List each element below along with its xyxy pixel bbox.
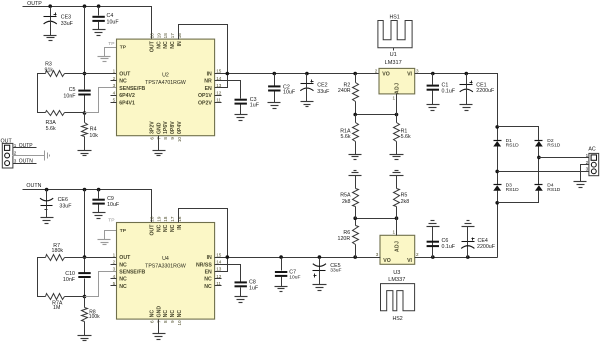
svg-text:1uF: 1uF (250, 102, 260, 108)
svg-text:HS1: HS1 (389, 15, 399, 21)
svg-text:U1: U1 (390, 52, 397, 58)
svg-text:NC: NC (170, 310, 176, 318)
svg-text:OUT: OUT (150, 224, 156, 236)
svg-text:RS1D: RS1D (547, 187, 561, 193)
svg-text:2k8: 2k8 (342, 199, 351, 205)
svg-text:1uF: 1uF (249, 286, 259, 292)
svg-text:NC: NC (150, 310, 156, 318)
svg-text:OUT: OUT (119, 72, 131, 78)
svg-text:33uF: 33uF (330, 268, 341, 274)
svg-text:CE6: CE6 (58, 197, 68, 203)
svg-text:18: 18 (163, 216, 168, 222)
svg-text:5.6k: 5.6k (401, 134, 411, 140)
svg-text:14: 14 (216, 260, 222, 265)
svg-text:U3: U3 (393, 270, 400, 276)
svg-text:EN: EN (205, 86, 212, 92)
svg-text:5.6k: 5.6k (46, 126, 56, 132)
svg-text:10nF: 10nF (63, 93, 76, 99)
svg-text:TP: TP (108, 218, 114, 224)
svg-text:33uF: 33uF (61, 21, 74, 27)
svg-text:17: 17 (170, 33, 175, 39)
svg-text:2: 2 (113, 260, 116, 265)
svg-text:NC: NC (204, 284, 212, 290)
svg-text:VI: VI (407, 72, 412, 78)
svg-text:NR: NR (204, 79, 212, 85)
svg-text:16: 16 (177, 33, 182, 39)
svg-text:IN: IN (177, 41, 183, 46)
svg-text:19: 19 (156, 216, 161, 222)
svg-text:15: 15 (216, 252, 222, 257)
svg-text:NC: NC (177, 310, 183, 318)
svg-text:NC: NC (163, 224, 169, 232)
svg-text:CE3: CE3 (61, 14, 71, 20)
svg-text:U4: U4 (162, 256, 169, 262)
svg-text:5.6k: 5.6k (340, 134, 350, 140)
svg-text:1P6V: 1P6V (163, 121, 169, 134)
svg-text:NC: NC (119, 284, 127, 290)
svg-text:GND: GND (156, 306, 162, 318)
svg-text:240R: 240R (338, 88, 351, 94)
svg-text:1: 1 (14, 143, 17, 148)
svg-text:OUT: OUT (150, 40, 156, 52)
svg-text:10k: 10k (89, 133, 98, 139)
svg-text:C6: C6 (442, 238, 449, 244)
svg-text:VI: VI (407, 258, 412, 264)
svg-text:12: 12 (216, 90, 222, 95)
svg-text:RS1D: RS1D (506, 143, 520, 149)
svg-text:3: 3 (113, 267, 116, 272)
svg-text:LM337: LM337 (388, 277, 405, 283)
svg-text:0P4V: 0P4V (177, 121, 183, 134)
svg-text:NR/SS: NR/SS (196, 262, 212, 268)
svg-text:NC: NC (119, 79, 127, 85)
svg-text:1M: 1M (53, 305, 60, 311)
svg-text:OUTN: OUTN (26, 183, 41, 189)
svg-text:120R: 120R (338, 236, 351, 242)
svg-text:0P8V: 0P8V (170, 121, 176, 134)
svg-text:AC: AC (588, 147, 596, 153)
svg-text:1: 1 (586, 153, 589, 158)
svg-text:5: 5 (113, 281, 116, 286)
svg-text:20: 20 (150, 33, 155, 39)
svg-text:9: 9 (170, 137, 175, 140)
svg-text:TP: TP (120, 228, 127, 234)
svg-text:1: 1 (113, 252, 116, 257)
svg-text:18: 18 (163, 33, 168, 39)
svg-text:HS2: HS2 (392, 316, 402, 322)
svg-text:9: 9 (170, 320, 175, 323)
svg-text:2: 2 (375, 69, 378, 74)
svg-text:TPS7A3301RGW: TPS7A3301RGW (145, 264, 186, 270)
svg-text:GND: GND (156, 122, 162, 134)
svg-text:OUT: OUT (1, 139, 13, 145)
svg-text:13: 13 (216, 267, 222, 272)
svg-text:CE4: CE4 (478, 238, 488, 244)
svg-text:10: 10 (177, 137, 182, 143)
svg-text:15: 15 (216, 69, 222, 74)
svg-text:0.1uF: 0.1uF (442, 244, 456, 250)
svg-text:6: 6 (150, 320, 155, 323)
svg-text:5: 5 (113, 98, 116, 103)
svg-text:C4: C4 (107, 13, 114, 19)
svg-text:CE2: CE2 (317, 82, 327, 88)
svg-text:NC: NC (204, 277, 212, 283)
svg-text:3: 3 (14, 158, 17, 163)
svg-text:ADJ: ADJ (394, 241, 400, 253)
svg-text:10uF: 10uF (107, 20, 120, 26)
svg-text:EN: EN (205, 270, 212, 276)
svg-text:2: 2 (586, 160, 589, 165)
svg-text:4: 4 (113, 274, 116, 279)
svg-text:10uF: 10uF (107, 202, 120, 208)
svg-text:1: 1 (113, 69, 116, 74)
svg-text:2: 2 (113, 76, 116, 81)
svg-text:NC: NC (170, 224, 176, 232)
svg-text:6P4V1: 6P4V1 (119, 100, 135, 106)
svg-text:10uF: 10uF (289, 274, 300, 280)
svg-text:2: 2 (416, 252, 419, 257)
svg-text:R5A: R5A (340, 193, 351, 199)
svg-text:11: 11 (216, 98, 221, 103)
svg-text:8: 8 (163, 320, 168, 323)
svg-text:IN: IN (207, 72, 212, 78)
svg-text:33uF: 33uF (59, 204, 72, 210)
svg-text:OP2V: OP2V (198, 100, 212, 106)
svg-text:91k: 91k (45, 67, 54, 73)
svg-text:OUTP: OUTP (19, 143, 34, 149)
svg-text:NC: NC (156, 224, 162, 232)
svg-text:100k: 100k (89, 314, 100, 320)
svg-text:U2: U2 (162, 72, 169, 78)
svg-text:16: 16 (177, 216, 182, 222)
svg-text:NC: NC (170, 41, 176, 49)
svg-text:R4: R4 (90, 126, 97, 132)
svg-text:TP: TP (120, 45, 127, 51)
svg-text:OUTP: OUTP (27, 1, 42, 7)
svg-text:3: 3 (113, 83, 116, 88)
svg-text:17: 17 (170, 216, 175, 222)
svg-text:3: 3 (586, 166, 589, 171)
svg-text:2k8: 2k8 (401, 199, 410, 205)
svg-text:TP: TP (108, 41, 114, 47)
svg-text:10nF: 10nF (63, 277, 76, 283)
svg-text:1: 1 (392, 230, 395, 235)
svg-text:ADJ: ADJ (394, 82, 400, 94)
svg-text:19: 19 (156, 33, 161, 39)
svg-text:3P2V: 3P2V (150, 121, 156, 134)
svg-text:C5: C5 (69, 87, 76, 93)
svg-text:3: 3 (416, 69, 419, 74)
svg-text:6: 6 (150, 137, 155, 140)
svg-text:20: 20 (150, 216, 155, 222)
svg-text:VO: VO (383, 258, 391, 264)
svg-text:8: 8 (163, 137, 168, 140)
svg-text:RS1D: RS1D (547, 143, 561, 149)
svg-text:NC: NC (163, 41, 169, 49)
svg-text:VO: VO (382, 72, 390, 78)
svg-text:SENSE/FB: SENSE/FB (119, 270, 145, 276)
svg-text:33uF: 33uF (317, 89, 330, 95)
svg-text:0.1uF: 0.1uF (442, 88, 456, 94)
svg-text:OUT: OUT (119, 255, 131, 261)
svg-text:180k: 180k (52, 248, 64, 254)
svg-text:OUTN: OUTN (19, 158, 34, 164)
svg-text:NC: NC (119, 277, 127, 283)
svg-text:2: 2 (14, 151, 17, 156)
svg-text:RS1D: RS1D (506, 187, 520, 193)
svg-text:IN: IN (177, 224, 183, 229)
svg-text:3: 3 (376, 252, 379, 257)
svg-text:NC: NC (163, 310, 169, 318)
svg-text:IN: IN (207, 255, 212, 261)
svg-text:1: 1 (392, 95, 395, 100)
svg-text:TPS7A4701RGW: TPS7A4701RGW (145, 80, 186, 86)
svg-text:NC: NC (156, 41, 162, 49)
svg-text:NC: NC (119, 262, 127, 268)
svg-text:OP1V: OP1V (198, 93, 212, 99)
svg-text:10: 10 (177, 320, 182, 326)
svg-text:2200uF: 2200uF (476, 88, 495, 94)
svg-text:4: 4 (113, 90, 116, 95)
svg-text:R5: R5 (401, 193, 408, 199)
svg-text:2200uF: 2200uF (477, 244, 496, 250)
svg-text:10uF: 10uF (283, 90, 296, 96)
svg-text:LM317: LM317 (385, 60, 402, 66)
svg-text:6P4V2: 6P4V2 (119, 93, 135, 99)
svg-text:SENSE/FB: SENSE/FB (119, 86, 145, 92)
